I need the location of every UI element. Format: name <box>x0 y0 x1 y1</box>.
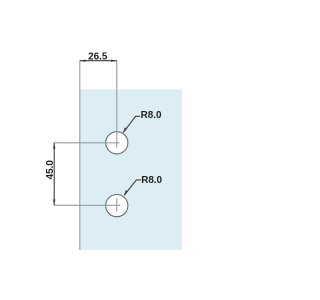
arrow left of 26.5 dim <box>80 60 86 62</box>
arrow top of 45.0 dim <box>53 143 55 149</box>
wire: vertical center tick of hole 2 <box>116 198 118 211</box>
wire: left extension line / panel left edge x=80 <box>79 61 81 250</box>
svg-text:26.5: 26.5 <box>88 51 108 62</box>
glass panel (light blue plate) <box>80 89 182 250</box>
dimension line 45.0 <box>53 143 55 206</box>
svg-text:45.0: 45.0 <box>45 160 56 180</box>
leader arrow at hole 1 <box>123 127 127 133</box>
arrow right of 26.5 dim <box>111 60 117 62</box>
wire: horizontal extension line through hole 1 center <box>54 142 119 144</box>
svg-text:R8.0: R8.0 <box>141 110 162 121</box>
wire: right extension line of 26.5 dim through hole 1 center <box>116 61 118 148</box>
svg-text:R8.0: R8.0 <box>141 175 162 186</box>
dimension line 26.5 <box>80 60 117 62</box>
leader line to hole 2 <box>124 180 141 195</box>
hole 2 (circle R8.0) <box>106 195 128 217</box>
wire: horizontal extension line through hole 2 center <box>54 204 120 206</box>
hole 1 (circle R8.0) <box>106 132 128 154</box>
leader arrow at hole 2 <box>124 190 128 196</box>
leader line to hole 1 <box>123 116 140 132</box>
arrow bottom of 45.0 dim <box>53 200 55 206</box>
